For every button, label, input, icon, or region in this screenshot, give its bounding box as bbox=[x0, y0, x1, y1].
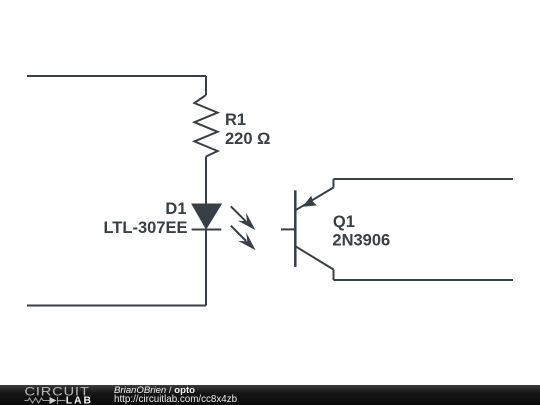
transistor Q1 base lead bbox=[281, 228, 295, 230]
wire emitter corner bbox=[333, 179, 335, 188]
resistor R1 bbox=[194, 95, 217, 157]
svg-text:R1: R1 bbox=[225, 111, 246, 129]
transistor Q1 collector diagonal bbox=[295, 246, 333, 269]
LED light arrow 1 shaft bbox=[231, 206, 246, 221]
wire collector corner bbox=[333, 270, 335, 281]
CircuitLab logo bbox=[0, 385, 110, 405]
svg-text:220 Ω: 220 Ω bbox=[225, 130, 270, 148]
wire top-left horizontal bbox=[27, 75, 206, 77]
LED light arrow 2 head bbox=[238, 233, 256, 251]
footer bar bbox=[0, 385, 540, 405]
footer url line bbox=[114, 395, 237, 405]
LED light arrow 1 head bbox=[238, 212, 256, 230]
transistor Q1 emitter arrow bbox=[303, 196, 317, 207]
wire R1 to D1 bbox=[205, 157, 207, 206]
LED light arrow 2 shaft bbox=[231, 226, 246, 241]
svg-text:LTL-307EE: LTL-307EE bbox=[103, 219, 187, 237]
svg-text:2N3906: 2N3906 bbox=[332, 232, 390, 250]
svg-text:Q1: Q1 bbox=[333, 213, 355, 231]
transistor Q1 bar bbox=[294, 190, 297, 267]
footer author line bbox=[114, 386, 195, 396]
wire bottom-right horizontal bbox=[334, 279, 514, 281]
svg-text:LAB: LAB bbox=[66, 395, 93, 405]
wire top-left corner down to R1 bbox=[205, 76, 207, 95]
wire bottom-left horizontal bbox=[27, 305, 206, 307]
transistor Q1 emitter diagonal bbox=[295, 188, 333, 211]
LED D1 triangle bbox=[193, 205, 221, 228]
wire D1 to bottom-left bbox=[205, 230, 207, 306]
wire top-right horizontal bbox=[334, 178, 514, 180]
svg-text:D1: D1 bbox=[165, 200, 186, 218]
LED D1 cathode bar bbox=[192, 229, 222, 231]
